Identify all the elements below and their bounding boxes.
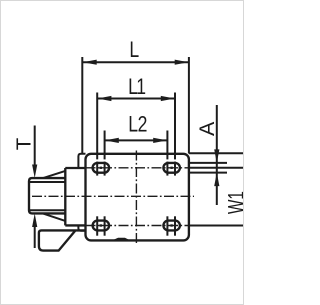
right side line 1 (plate top surface extended) (189, 152, 245, 154)
dimension A line upper segment with down arrowhead (216, 105, 218, 205)
foot (release lever) (39, 230, 86, 250)
slot top-left tangent lines (96, 162, 98, 176)
svg-text:T: T (12, 137, 35, 150)
small wedge under plate bottom edge (115, 239, 129, 241)
dimension L arrowhead right (175, 60, 189, 65)
slot top-right tangent lines (166, 162, 168, 176)
bottom slot row centerline (dash-dot inside plate) (86, 225, 189, 227)
slot bottom-right tangent lines (166, 216, 168, 235)
nose inner bottom line (30, 209, 66, 211)
svg-text:L2: L2 (128, 113, 147, 137)
nose inner top line (30, 181, 66, 183)
dimension L extension line left (81, 57, 83, 153)
nose outline (29, 178, 65, 213)
slot bottom-right outline (163, 221, 180, 231)
bottom slot row centerline extension to right edge (189, 225, 245, 227)
dimension L2 arrowhead left (105, 138, 119, 143)
right side line 2 (slot top edge extended) (189, 162, 227, 164)
slot bottom-left outline (93, 221, 110, 231)
neck top edge (65, 167, 85, 169)
dimension L arrowhead left (83, 60, 97, 65)
dimension L2 extension line left (104, 131, 106, 160)
dimension L1 extension line left (96, 93, 98, 160)
dimension W1 line lower segment with up arrowhead (214, 173, 219, 187)
bottom tab (78, 225, 85, 230)
svg-text:L: L (129, 38, 139, 62)
flare bottom slope (44, 214, 66, 221)
dimension L2 line (105, 139, 167, 141)
slot top-left outline (93, 163, 110, 173)
dimension T line upper segment with down arrowhead (34, 126, 36, 172)
slot top-right outline (163, 163, 180, 173)
top slot row centerline extension to right edge (189, 167, 245, 169)
dimension L1 line (98, 98, 175, 100)
main horizontal centerline (32, 195, 194, 197)
flare top slope (44, 171, 66, 178)
dimension L2 extension line right (166, 131, 168, 160)
dimension L1 extension line right (174, 93, 176, 160)
svg-text:A: A (195, 121, 219, 136)
dimension L line (83, 61, 189, 63)
dimension L2 arrowhead right (153, 138, 167, 143)
svg-text:L1: L1 (128, 75, 146, 99)
plate outline (86, 154, 189, 241)
plate vertical centerline (135, 151, 137, 244)
dimension L1 arrowhead right (161, 96, 175, 101)
top tab (78, 154, 85, 168)
svg-text:W1: W1 (225, 191, 244, 214)
neck bottom edge (65, 224, 85, 226)
neck left edge (64, 168, 66, 225)
right side line 4 (slot bottom edge extended) (189, 172, 227, 174)
top slot row centerline (dash-dot inside plate) (86, 167, 189, 169)
dimension L extension line right (plate right edge extended up) (188, 57, 190, 154)
dimension T line lower segment with up arrowhead (34, 220, 36, 248)
dimension L1 arrowhead left (97, 96, 111, 101)
slot bottom-left tangent lines (96, 216, 98, 235)
